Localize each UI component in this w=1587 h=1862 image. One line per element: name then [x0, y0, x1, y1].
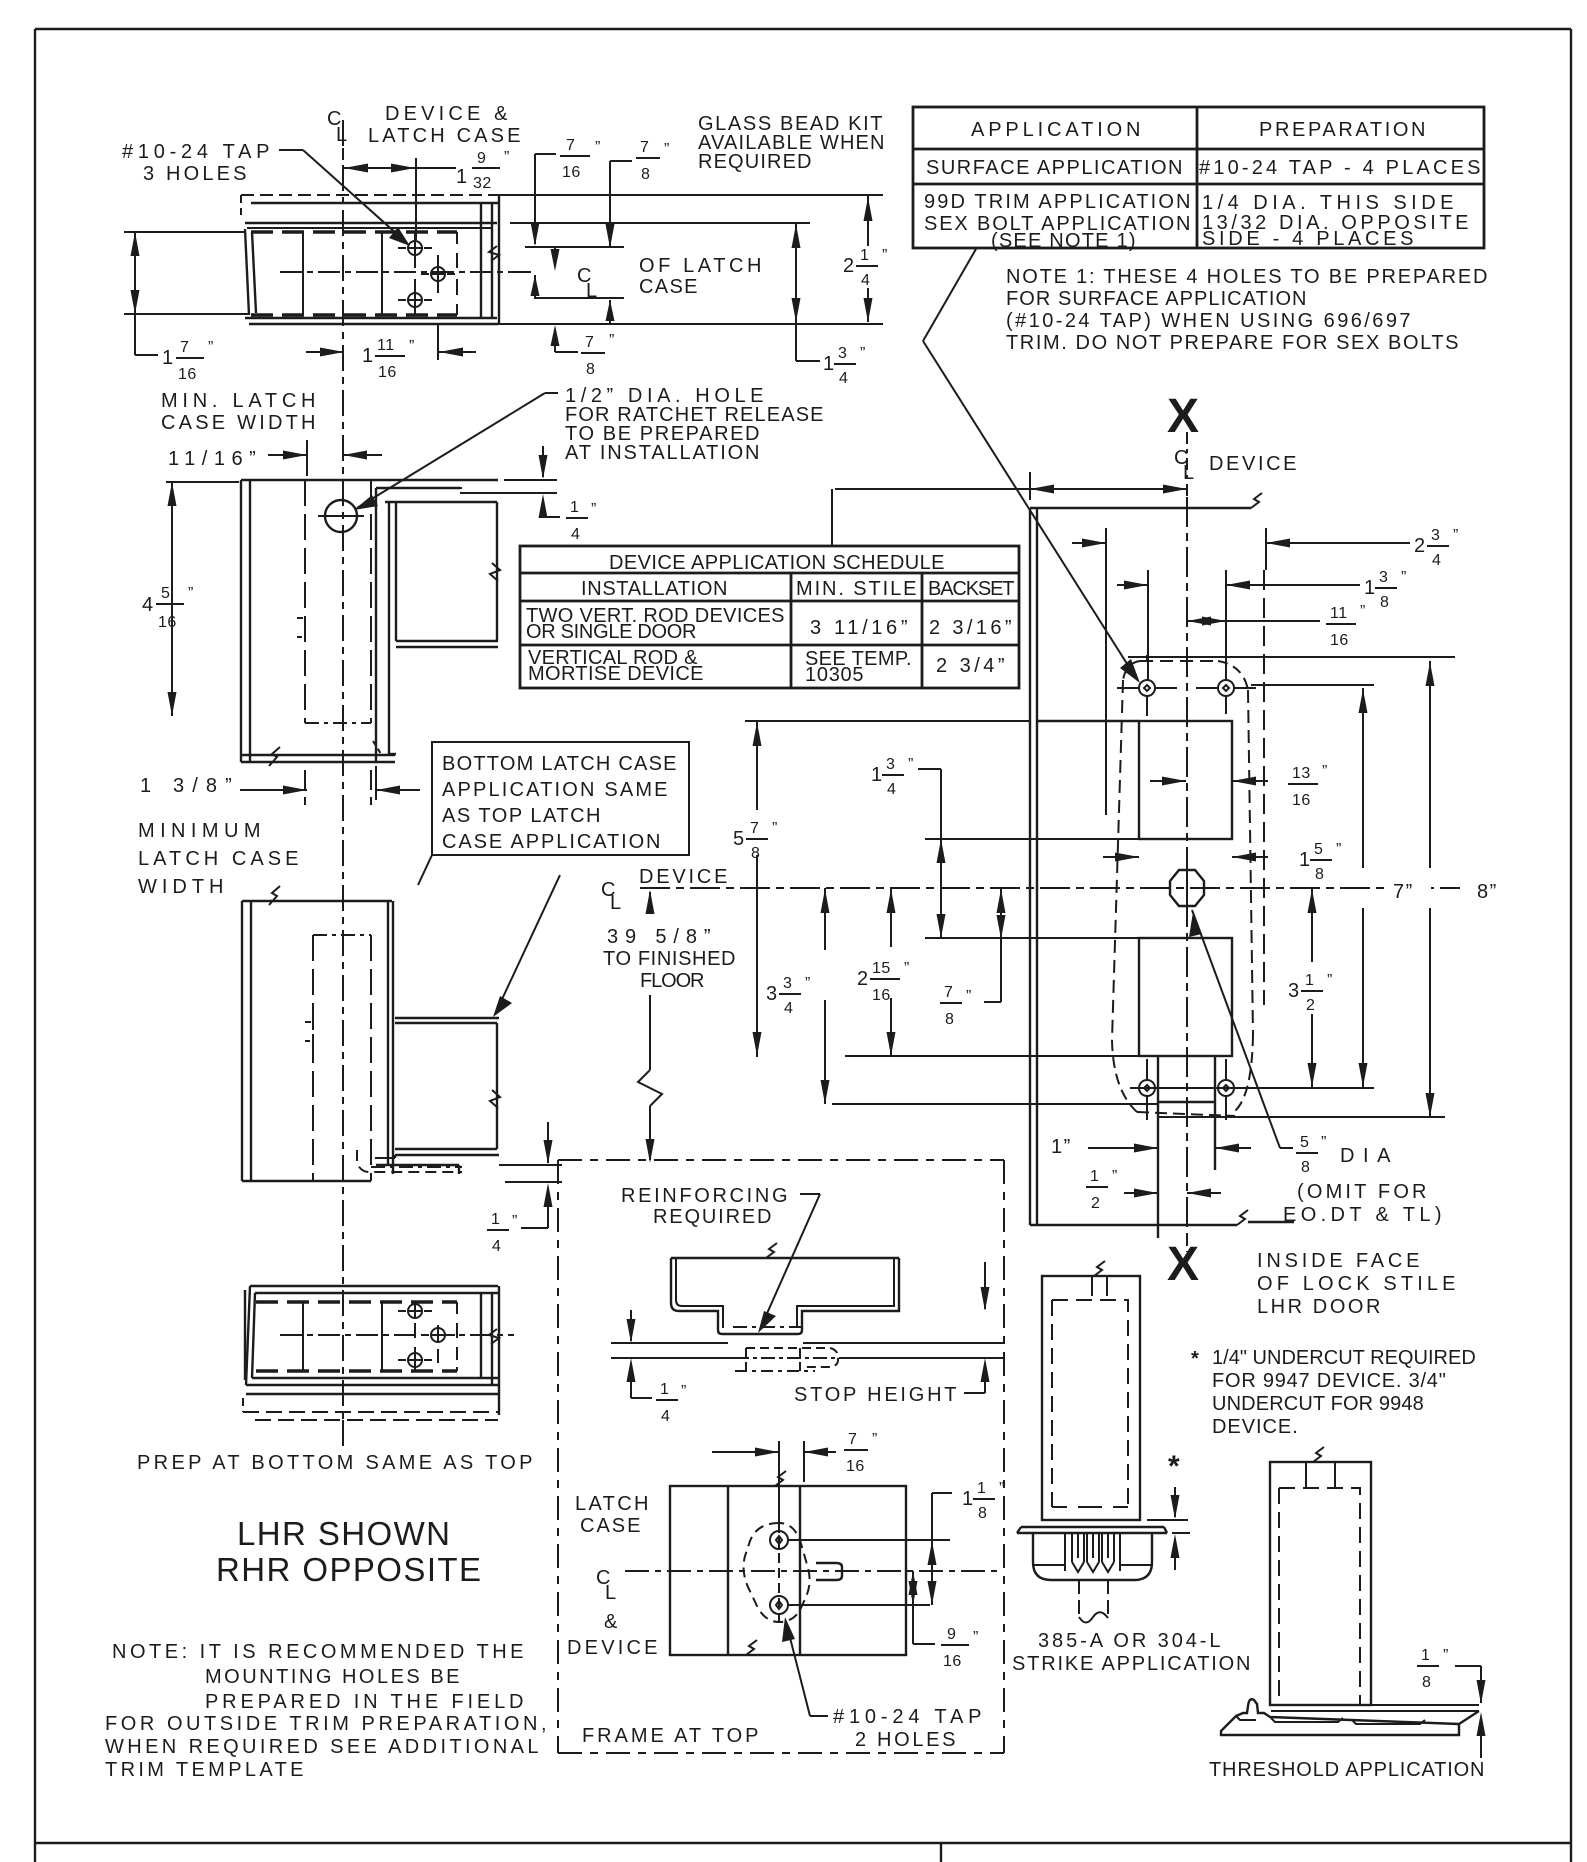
APPLICATION PREPARATION table — [913, 107, 1484, 252]
svg-text:8”: 8” — [1477, 881, 1498, 903]
foot with rounded dashed corner — [375, 1157, 395, 1159]
svg-text:DIA: DIA — [1340, 1145, 1392, 1167]
svg-text:”: ” — [681, 1383, 687, 1400]
svg-text:OF LOCK STILE: OF LOCK STILE — [1257, 1273, 1457, 1295]
svg-text:CASE: CASE — [639, 276, 699, 298]
svg-text:(#10-24 TAP) WHEN USING 696/69: (#10-24 TAP) WHEN USING 696/697 — [1006, 310, 1412, 332]
tick for 1/4 dim — [504, 479, 557, 481]
dim 1 3/8 — [1117, 569, 1407, 611]
svg-text:”: ” — [1321, 1134, 1327, 1151]
leader 1/2 dia hole — [354, 393, 558, 510]
dim 4 5/16 — [142, 482, 239, 716]
svg-text:*: * — [1191, 1348, 1199, 1370]
svg-text:”: ” — [208, 339, 214, 356]
svg-text:1: 1 — [162, 347, 175, 369]
svg-text:2: 2 — [1091, 1195, 1100, 1212]
svg-text:DEVICE: DEVICE — [567, 1637, 659, 1659]
dim STOP HEIGHT — [794, 1262, 990, 1406]
svg-text:2 3/4”: 2 3/4” — [936, 655, 1006, 677]
svg-text:LATCH CASE: LATCH CASE — [138, 848, 300, 870]
undercut note — [1191, 1347, 1476, 1438]
door edge double line — [241, 901, 243, 1181]
svg-text:8: 8 — [586, 361, 595, 378]
svg-text:4: 4 — [142, 594, 155, 616]
svg-text:*: * — [1168, 1450, 1180, 1483]
svg-text:DEVICE: DEVICE — [1209, 453, 1298, 475]
dim 3 1/2 — [1288, 888, 1333, 1087]
long lines door top — [611, 1342, 728, 1344]
svg-text:”: ” — [188, 585, 194, 602]
dim 1 3/8 minimum latch case width — [140, 766, 420, 805]
svg-text:RHR OPPOSITE: RHR OPPOSITE — [216, 1551, 486, 1588]
bottom latch case top view — [243, 1286, 514, 1446]
svg-text:CASE: CASE — [580, 1515, 642, 1537]
svg-text:1”: 1” — [1051, 1136, 1072, 1158]
svg-text:LATCH CASE: LATCH CASE — [368, 125, 522, 147]
svg-text:1: 1 — [570, 499, 579, 516]
dim 1 1/8 — [928, 1480, 1005, 1605]
svg-text:1: 1 — [1299, 849, 1312, 871]
cutout rect 2 — [1139, 938, 1232, 1056]
svg-text:FOR SURFACE APPLICATION: FOR SURFACE APPLICATION — [1006, 288, 1308, 310]
svg-text:L: L — [605, 1582, 618, 1604]
svg-text:DEVICE APPLICATION SCHEDULE: DEVICE APPLICATION SCHEDULE — [609, 552, 946, 574]
svg-text:”: ” — [1360, 603, 1366, 620]
svg-text:1: 1 — [1364, 577, 1377, 599]
svg-text:DEVICE: DEVICE — [639, 866, 729, 888]
svg-text:FRAME AT TOP: FRAME AT TOP — [582, 1725, 760, 1747]
svg-text:1: 1 — [1305, 972, 1314, 989]
dim stile edge to CL (backset ref) — [835, 472, 1188, 500]
dim 1/4 lower — [487, 1122, 562, 1255]
strike application rod — [1042, 1261, 1140, 1520]
svg-text:16: 16 — [1292, 792, 1311, 809]
svg-text:INSTALLATION: INSTALLATION — [581, 578, 729, 600]
svg-text:3: 3 — [1379, 569, 1388, 586]
dim 9/16 — [909, 1571, 979, 1670]
svg-text:”: ” — [591, 501, 597, 518]
svg-text:3: 3 — [838, 345, 847, 362]
svg-text:7: 7 — [944, 984, 953, 1001]
stem — [1067, 1579, 1115, 1581]
svg-text:32: 32 — [473, 175, 492, 192]
svg-text:1: 1 — [456, 166, 469, 188]
svg-text:4: 4 — [887, 781, 896, 798]
svg-text:”: ” — [966, 988, 972, 1005]
svg-text:BOTTOM LATCH CASE: BOTTOM LATCH CASE — [442, 753, 678, 775]
svg-text:7: 7 — [640, 139, 649, 156]
svg-text:OR SINGLE DOOR: OR SINGLE DOOR — [526, 621, 698, 643]
upper door edge section view — [241, 480, 557, 766]
svg-text:7: 7 — [750, 820, 759, 837]
stop piece (hidden, dashed) — [745, 1348, 747, 1371]
dim 1/4 upper right — [539, 446, 597, 543]
svg-text:AS TOP LATCH: AS TOP LATCH — [442, 805, 602, 827]
svg-text:SURFACE APPLICATION: SURFACE APPLICATION — [926, 157, 1184, 179]
svg-text:7: 7 — [566, 137, 575, 154]
svg-text:”: ” — [609, 332, 615, 349]
svg-text:AT INSTALLATION: AT INSTALLATION — [565, 442, 761, 464]
dim 39 5/8 TO FINISHED FLOOR — [603, 890, 737, 1163]
svg-text:4: 4 — [784, 1000, 793, 1017]
dim 2 1/4 — [840, 196, 896, 322]
svg-text:16: 16 — [158, 614, 177, 631]
dashed latch case — [312, 935, 314, 1181]
CL symbol top — [327, 108, 349, 146]
door edge double line — [240, 480, 242, 762]
extension lines verticals — [1106, 528, 1266, 1005]
dashed lower band — [246, 1393, 498, 1395]
svg-text:(SEE NOTE 1): (SEE NOTE 1) — [991, 230, 1137, 252]
cutout rect 1 — [1139, 721, 1232, 839]
dim 1 7/16 left — [124, 232, 250, 383]
svg-text:16: 16 — [1330, 632, 1349, 649]
horizontal device centerline — [640, 887, 1460, 889]
svg-text:5: 5 — [1300, 1134, 1309, 1151]
svg-text:”: ” — [595, 139, 601, 156]
svg-text:APPLICATION SAME: APPLICATION SAME — [442, 779, 669, 801]
svg-text:”: ” — [504, 149, 510, 166]
interior verticals — [302, 232, 304, 315]
svg-text:#10-24 TAP: #10-24 TAP — [833, 1706, 983, 1728]
dim 1 11/16 — [306, 325, 476, 381]
svg-text:5: 5 — [733, 828, 746, 850]
svg-text:1: 1 — [660, 1381, 669, 1398]
dim 2 3/4 — [1072, 527, 1459, 569]
svg-text:8: 8 — [945, 1011, 954, 1028]
dim 7/8 lower — [551, 325, 615, 378]
svg-text:L: L — [336, 124, 349, 146]
svg-text:INSIDE FACE: INSIDE FACE — [1257, 1250, 1421, 1272]
svg-text:2: 2 — [843, 255, 856, 277]
svg-text:”: ” — [1443, 1647, 1449, 1664]
svg-text:L: L — [610, 892, 623, 914]
svg-text:L: L — [1183, 462, 1196, 484]
svg-text:L: L — [586, 280, 599, 302]
svg-text:16: 16 — [178, 366, 197, 383]
device housing — [376, 487, 460, 489]
dim 7/8 top — [606, 139, 670, 248]
svg-text:DEVICE.: DEVICE. — [1212, 1416, 1298, 1438]
threshold application rod — [1270, 1447, 1371, 1705]
svg-text:7: 7 — [585, 334, 594, 351]
svg-text:1: 1 — [362, 345, 375, 367]
svg-text:”: ” — [1336, 841, 1342, 858]
svg-text:16: 16 — [562, 164, 581, 181]
svg-text:TRIM TEMPLATE: TRIM TEMPLATE — [105, 1759, 305, 1781]
prongs — [1072, 1533, 1084, 1572]
svg-text:SIDE - 4 PLACES: SIDE - 4 PLACES — [1202, 228, 1415, 250]
heavy dashed interior top/bottom — [251, 230, 457, 234]
svg-text:2: 2 — [857, 968, 870, 990]
svg-text:NOTE 1: THESE 4 HOLES TO BE PR: NOTE 1: THESE 4 HOLES TO BE PREPARED — [1006, 266, 1489, 288]
case outer solid — [251, 202, 498, 204]
svg-text:”: ” — [1453, 527, 1459, 544]
svg-text:X: X — [1167, 390, 1199, 443]
threshold profile — [1221, 1699, 1479, 1735]
svg-text:”: ” — [1322, 763, 1328, 780]
leader 5/8 DIA — [1189, 910, 1293, 1148]
dim 1 9/32 — [343, 148, 510, 240]
svg-text:3 HOLES: 3 HOLES — [143, 163, 248, 185]
svg-text:16: 16 — [943, 1653, 962, 1670]
svg-text:10305: 10305 — [805, 664, 865, 686]
dim 1 3/4 device — [871, 756, 946, 938]
pointer line from stile dim to table — [831, 489, 833, 546]
horizontal CL — [625, 1570, 1001, 1572]
svg-text:”: ” — [1327, 972, 1333, 989]
svg-text:385-A OR 304-L: 385-A OR 304-L — [1038, 1630, 1222, 1652]
horizontal CL of case — [280, 271, 511, 273]
dim 7/16 frame — [712, 1431, 878, 1482]
frame header profile — [611, 1243, 1004, 1371]
svg-text:4: 4 — [861, 272, 870, 289]
svg-text:5: 5 — [1314, 841, 1323, 858]
dim 7 inch — [1130, 688, 1431, 1088]
svg-text:16: 16 — [872, 987, 891, 1004]
svg-text:FLOOR: FLOOR — [640, 970, 706, 992]
latch case frame detail — [625, 1441, 1001, 1655]
svg-text:5: 5 — [161, 585, 170, 602]
svg-text:8: 8 — [1380, 594, 1389, 611]
svg-text:16: 16 — [378, 364, 397, 381]
svg-text:LATCH: LATCH — [575, 1493, 650, 1515]
svg-text:2: 2 — [1414, 535, 1427, 557]
1/2 dia hole — [325, 500, 357, 532]
svg-text:”: ” — [872, 1431, 878, 1448]
svg-text:CASE APPLICATION: CASE APPLICATION — [442, 831, 662, 853]
svg-text:4: 4 — [839, 370, 848, 387]
hole CL extensions — [788, 1539, 950, 1541]
dashed device outline — [1112, 661, 1253, 1116]
svg-text:NOTE: IT IS RECOMMENDED THE: NOTE: IT IS RECOMMENDED THE — [112, 1641, 525, 1663]
svg-text:3: 3 — [886, 756, 895, 773]
svg-text:&: & — [604, 1611, 619, 1633]
svg-text:”: ” — [882, 247, 888, 264]
dim 1 3/4 top — [792, 224, 866, 387]
svg-text:4: 4 — [571, 526, 580, 543]
svg-text:1: 1 — [1090, 1168, 1099, 1185]
svg-text:CASE WIDTH: CASE WIDTH — [161, 412, 317, 434]
top latch case top view — [241, 195, 511, 324]
svg-text:3: 3 — [1431, 527, 1440, 544]
DEVICE APPLICATION SCHEDULE table — [520, 489, 1019, 688]
svg-text:1: 1 — [823, 353, 836, 375]
svg-text:FOR 9947 DEVICE. 3/4": FOR 9947 DEVICE. 3/4" — [1212, 1370, 1446, 1392]
dim 1 5/8 — [1103, 841, 1342, 883]
svg-text:7: 7 — [180, 339, 189, 356]
svg-text:PREPARED IN THE FIELD: PREPARED IN THE FIELD — [205, 1691, 525, 1713]
strike body — [1017, 1527, 1167, 1623]
svg-text:99D TRIM APPLICATION: 99D TRIM APPLICATION — [924, 191, 1192, 213]
svg-text:”: ” — [1401, 569, 1407, 586]
device housing — [395, 1017, 499, 1019]
svg-text:1: 1 — [871, 764, 884, 786]
svg-text:4: 4 — [492, 1238, 501, 1255]
svg-text:APPLICATION: APPLICATION — [971, 119, 1142, 141]
svg-text:3: 3 — [1288, 980, 1301, 1002]
dim 7/8 device — [940, 888, 1006, 1028]
small arrows near CL of latch case — [531, 247, 615, 323]
glass bead dashed outline — [241, 194, 498, 196]
octagon hole 5/8 dia — [1170, 862, 1204, 914]
svg-text:8: 8 — [978, 1505, 987, 1522]
svg-text:7: 7 — [848, 1431, 857, 1448]
svg-text:”: ” — [512, 1213, 518, 1230]
screw holes — [770, 1531, 788, 1549]
latch bolt (hidden, dashed) — [802, 1348, 838, 1367]
dim 3 3/4 — [766, 888, 830, 1104]
dim 2 15/16 — [857, 888, 910, 1056]
dim 11/16 left — [168, 440, 382, 476]
svg-text:TRIM. DO NOT PREPARE FOR SEX B: TRIM. DO NOT PREPARE FOR SEX BOLTS — [1006, 332, 1460, 354]
svg-text:11: 11 — [1330, 605, 1348, 622]
svg-text:”: ” — [904, 960, 910, 977]
svg-text:MIN. LATCH: MIN. LATCH — [161, 390, 317, 412]
svg-text:16: 16 — [846, 1458, 865, 1475]
CL symbol of latch case — [577, 265, 599, 302]
svg-text:2 HOLES: 2 HOLES — [855, 1729, 957, 1751]
dim 1/8 threshold — [1417, 1647, 1486, 1758]
CL symbol device top — [1174, 432, 1298, 497]
svg-text:11: 11 — [377, 337, 395, 354]
dim 5 7/8 — [733, 721, 778, 1057]
BOTTOM LATCH CASE box — [418, 742, 689, 1017]
asterisk dim strike — [1147, 1450, 1190, 1570]
svg-text:1/4" UNDERCUT REQUIRED: 1/4" UNDERCUT REQUIRED — [1212, 1347, 1476, 1369]
svg-text:”: ” — [908, 756, 914, 773]
svg-text:”: ” — [1112, 1168, 1118, 1185]
dim 11/16 right — [1187, 603, 1366, 649]
svg-text:#10-24 TAP - 4 PLACES: #10-24 TAP - 4 PLACES — [1199, 157, 1482, 179]
svg-text:1: 1 — [962, 1488, 975, 1510]
bottom step and rod — [1158, 1056, 1215, 1238]
svg-text:TO FINISHED: TO FINISHED — [603, 948, 737, 970]
dashed detail box FRAME AT TOP — [558, 1160, 1004, 1753]
CL DEVICE label left — [601, 866, 729, 914]
svg-text:4: 4 — [661, 1408, 670, 1425]
leader #10-24 TAP — [279, 150, 410, 246]
upper rivet holes — [1117, 655, 1256, 716]
dim 1 inch — [1051, 1136, 1251, 1158]
svg-text:PREPARATION: PREPARATION — [1259, 119, 1427, 141]
svg-text:”: ” — [860, 345, 866, 362]
left slanted end — [245, 229, 249, 315]
svg-text:8: 8 — [1301, 1159, 1310, 1176]
svg-text:REQUIRED: REQUIRED — [698, 151, 813, 173]
lock stile edge — [1030, 493, 1294, 1225]
case right verticals — [387, 901, 389, 1166]
leader reinforcing — [758, 1194, 820, 1333]
dim 8 inch — [1426, 661, 1516, 1117]
svg-text:3: 3 — [766, 983, 779, 1005]
svg-text:1: 1 — [977, 1480, 986, 1497]
svg-text:BACKSET: BACKSET — [928, 578, 1016, 600]
lower rivet holes — [1139, 1059, 1234, 1120]
leader from table to device hole — [923, 249, 1140, 683]
svg-text:15: 15 — [872, 960, 891, 977]
svg-text:”: ” — [772, 820, 778, 837]
leader 2 holes — [782, 1617, 828, 1716]
svg-text:WHEN REQUIRED SEE ADDITIONAL: WHEN REQUIRED SEE ADDITIONAL — [105, 1736, 540, 1758]
bottom solid lines — [245, 317, 497, 319]
break mark right side — [489, 246, 499, 261]
bottom foot — [389, 753, 396, 755]
svg-text:MORTISE DEVICE: MORTISE DEVICE — [528, 663, 705, 685]
glass stop lines right of case — [249, 195, 883, 324]
svg-text:UNDERCUT FOR 9948: UNDERCUT FOR 9948 — [1212, 1393, 1424, 1415]
svg-text:1: 1 — [1421, 1647, 1430, 1664]
dim 1/2 inch — [1086, 1168, 1221, 1212]
svg-text:MIN. STILE: MIN. STILE — [796, 578, 918, 600]
svg-text:LHR DOOR: LHR DOOR — [1257, 1296, 1382, 1318]
svg-text:”: ” — [664, 141, 670, 158]
svg-text:FOR OUTSIDE TRIM PREPARATION,: FOR OUTSIDE TRIM PREPARATION, — [105, 1713, 548, 1735]
device vertical centerline — [1186, 497, 1188, 1238]
label 5/8 DIA — [1296, 1134, 1392, 1176]
dim 7/16 top — [531, 137, 601, 246]
rivet holes — [408, 241, 422, 255]
bolt right — [816, 1563, 842, 1580]
right end verticals — [480, 203, 482, 318]
case right edge vertical — [375, 488, 377, 761]
dim 1/4 reinforcing — [627, 1310, 687, 1425]
svg-text:X: X — [1167, 1238, 1199, 1291]
svg-text:REQUIRED: REQUIRED — [653, 1206, 773, 1228]
svg-text:2 3/16”: 2 3/16” — [929, 617, 1013, 639]
lower door edge section view — [242, 886, 500, 1181]
dim 13/16 — [1150, 763, 1328, 809]
dashed latch case — [304, 480, 306, 723]
svg-text:4: 4 — [1432, 552, 1441, 569]
svg-text:”: ” — [999, 1480, 1005, 1497]
svg-text:13: 13 — [1292, 765, 1311, 782]
svg-text:8: 8 — [641, 166, 650, 183]
svg-text:1: 1 — [860, 247, 869, 264]
svg-text:9: 9 — [477, 150, 486, 167]
keeper dashed outline — [744, 1523, 810, 1622]
svg-text:8: 8 — [751, 845, 760, 862]
svg-text:3 11/16”: 3 11/16” — [810, 617, 909, 639]
svg-text:#10-24 TAP: #10-24 TAP — [122, 141, 271, 163]
svg-text:1: 1 — [491, 1211, 500, 1228]
svg-text:1/4 DIA. THIS SIDE: 1/4 DIA. THIS SIDE — [1202, 192, 1455, 214]
svg-text:MOUNTING HOLES BE: MOUNTING HOLES BE — [205, 1666, 461, 1688]
horizontal reference lines — [745, 657, 1455, 1117]
svg-text:9: 9 — [947, 1626, 956, 1643]
top edge — [241, 479, 498, 481]
svg-text:(OMIT FOR: (OMIT FOR — [1297, 1181, 1428, 1203]
svg-text:WIDTH: WIDTH — [138, 876, 225, 898]
svg-text:THRESHOLD APPLICATION: THRESHOLD APPLICATION — [1209, 1759, 1486, 1781]
svg-text:OF LATCH: OF LATCH — [639, 255, 763, 277]
svg-text:8: 8 — [1315, 866, 1324, 883]
svg-text:7”: 7” — [1393, 881, 1414, 903]
svg-text:STRIKE APPLICATION: STRIKE APPLICATION — [1012, 1653, 1252, 1675]
svg-text:3: 3 — [783, 975, 792, 992]
svg-text:”: ” — [973, 1629, 979, 1646]
svg-text:REINFORCING: REINFORCING — [621, 1185, 789, 1207]
svg-text:”: ” — [805, 975, 811, 992]
svg-text:2: 2 — [1306, 997, 1315, 1014]
svg-text:8: 8 — [1422, 1674, 1431, 1691]
device centerline (vertical) — [342, 120, 344, 1446]
svg-text:STOP HEIGHT: STOP HEIGHT — [794, 1384, 958, 1406]
svg-text:”: ” — [409, 338, 415, 355]
svg-text:LHR SHOWN: LHR SHOWN — [237, 1515, 455, 1552]
